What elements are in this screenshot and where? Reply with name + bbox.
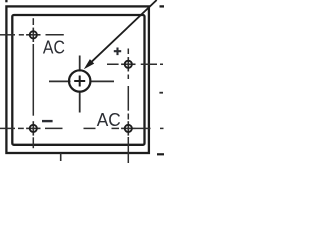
AC terminal 2 (bottom-right)	[121, 121, 135, 135]
AC terminal 1 (top-left)	[26, 28, 40, 42]
plus mark inside mounting hole	[74, 76, 85, 87]
frame border	[6, 6, 149, 153]
label minus	[42, 120, 53, 122]
centerline H through AC terminal 1 (y=34.8)	[0, 34, 64, 36]
centerline V through AC terminal 1 and minus terminal (x=33.3)	[32, 18, 34, 148]
label plus	[114, 48, 121, 56]
package outline	[12, 15, 144, 145]
mounting hole crosshair	[49, 56, 114, 113]
minus terminal (bottom-left)	[26, 121, 40, 135]
centerline V through plus terminal and AC terminal 2 (x=128.3)	[127, 49, 129, 164]
plus terminal (right)	[121, 57, 135, 71]
dash right of frame bottom-right corner	[157, 153, 164, 155]
dimension dash at right edge (y=92.7)	[159, 92, 163, 94]
dash right of frame top-right corner	[160, 5, 165, 7]
centerline H through plus terminal (y=64.25)	[107, 63, 163, 65]
mounting hole circle	[69, 70, 90, 91]
svg-text:AC: AC	[43, 37, 65, 57]
tick below frame bottom	[60, 153, 62, 161]
centerline H through minus terminal and AC terminal 2 (y=128.4)	[0, 127, 164, 129]
svg-text:AC: AC	[97, 110, 121, 130]
tick above frame top-left corner	[5, 0, 7, 2]
leader arrow to mounting hole	[91, 0, 157, 63]
